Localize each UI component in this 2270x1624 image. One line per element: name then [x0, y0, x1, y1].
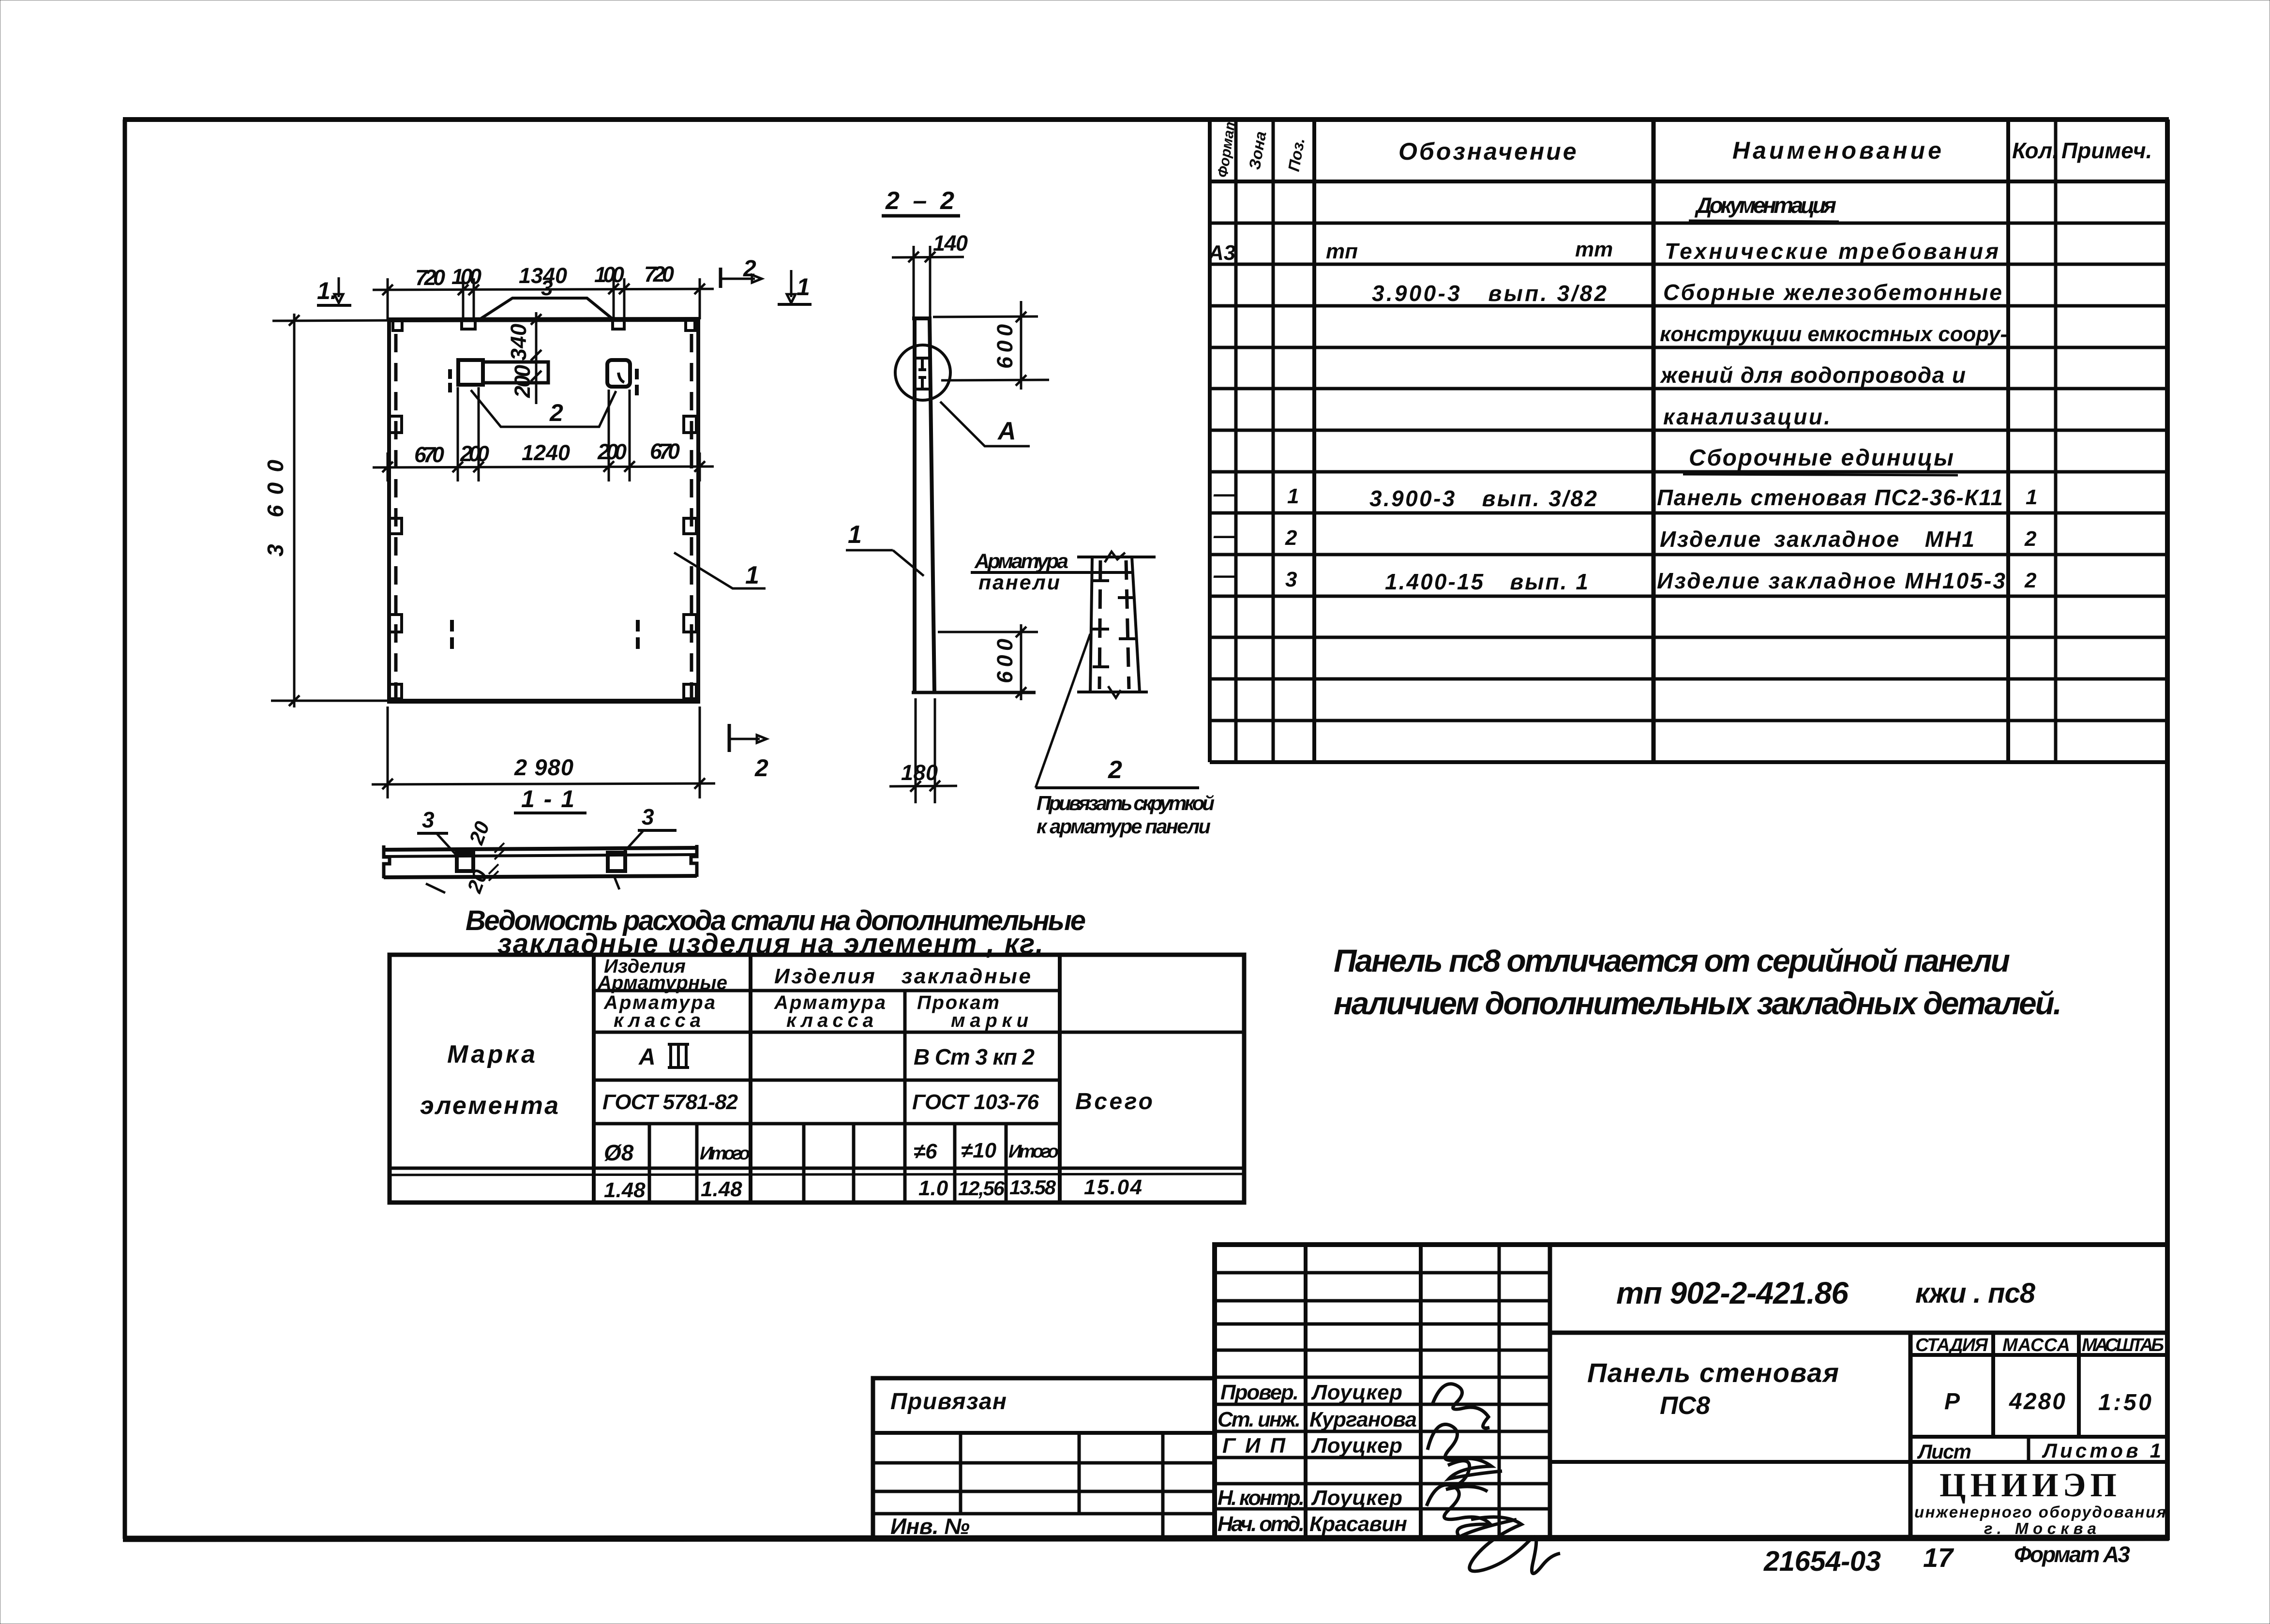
left edge key 1: [389, 416, 402, 433]
embed MH1 bar: [483, 362, 548, 383]
spec table row line 3: [1210, 304, 2167, 308]
stadia col масса: [1991, 1333, 1995, 1437]
svg-text:МАСШТАБ: МАСШТАБ: [2082, 1335, 2164, 1355]
600 upper ext bottom: [941, 380, 1049, 380]
left cols line b: [1419, 1245, 1423, 1538]
svg-text:Наименование: Наименование: [1732, 137, 1944, 164]
spec table row line 7: [1210, 470, 2167, 474]
strip top edge: [384, 848, 697, 850]
leader 3 left: [436, 833, 457, 856]
dash-dot mark right of embed: [635, 369, 639, 395]
embed MH105 hook mark: [618, 373, 624, 382]
SHEET-FRAME: [123, 120, 2169, 1539]
spec table column line Поз/Обозначение: [1312, 120, 1316, 762]
left edge key 4: [389, 684, 402, 699]
svg-text:кжи . пс8: кжи . пс8: [1915, 1278, 2036, 1309]
svg-text:Марка: Марка: [447, 1040, 535, 1068]
svg-text:конструкции емкостных соору-: конструкции емкостных соору-: [1660, 322, 2007, 346]
privyazan row 3 bottom: [873, 1490, 1215, 1493]
mid dim ext left: [387, 452, 389, 481]
panel right inner dashed edge: [690, 334, 693, 698]
spec table row line 4: [1210, 346, 2167, 349]
vedomost col Марка/арматурные: [592, 955, 596, 1203]
spec table column line Формат-left: [1208, 120, 1212, 762]
svg-text:Зона: Зона: [1245, 130, 1269, 171]
spec table column line Зона/Поз: [1272, 120, 1275, 762]
dash-dot mark left of embed: [448, 369, 452, 392]
embed MH105 plate: [607, 360, 630, 387]
svg-text:2: 2: [2024, 569, 2037, 592]
svg-text:Формат А3: Формат А3: [2014, 1542, 2130, 1567]
svg-text:2: 2: [549, 399, 563, 426]
svg-text:жений для водопровода и: жений для водопровода и: [1659, 362, 1966, 388]
svg-text:2: 2: [1285, 526, 1297, 550]
PANEL-FRONT-VIEW: [387, 276, 766, 701]
svg-text:Панель стеновая ПС2-36-К11: Панель стеновая ПС2-36-К11: [1657, 485, 2003, 510]
svg-text:3.900-3 вып. 3/82: 3.900-3 вып. 3/82: [1369, 486, 1597, 511]
svg-text:марки: марки: [951, 1010, 1028, 1031]
mid dim ext 2110: [608, 390, 610, 481]
600 upper ticks: [1016, 312, 1026, 386]
mid dim ext 870: [478, 387, 480, 481]
break zigzag bottom: [1108, 686, 1121, 698]
spec table row line 12: [1210, 677, 2167, 681]
detail circle A: [895, 345, 950, 400]
mid dim ext right: [699, 452, 701, 481]
svg-text:1.400-15 вып. 1: 1.400-15 вып. 1: [1385, 569, 1588, 594]
svg-text:2: 2: [754, 754, 768, 782]
panel top edge: [387, 319, 700, 320]
strip left cap: [384, 845, 390, 878]
3600 dim vline: [293, 314, 296, 707]
signature 4: [1427, 1485, 1517, 1537]
svg-text:МАССА: МАССА: [2002, 1335, 2070, 1355]
svg-text:Кол.: Кол.: [2012, 138, 2059, 163]
signature 5 tail: [1470, 1517, 1560, 1574]
svg-text:21654-03: 21654-03: [1763, 1546, 1881, 1577]
svg-text:Лоуцкер: Лоуцкер: [1311, 1434, 1402, 1458]
privyazan outer box: [873, 1378, 1215, 1538]
svg-text:—: —: [1213, 523, 1236, 548]
left corner notch: [393, 320, 402, 331]
detail bottom line: [1077, 691, 1148, 693]
3600 dim top ext: [272, 320, 400, 321]
svg-text:А: А: [997, 417, 1016, 445]
SPEC-TABLE-GRID: [1210, 120, 2167, 762]
svg-text:—: —: [1213, 481, 1236, 506]
svg-text:Изделия закладные: Изделия закладные: [774, 964, 1031, 988]
svg-text:Красавин: Красавин: [1309, 1512, 1407, 1536]
svg-text:ГОСТ 103-76: ГОСТ 103-76: [912, 1090, 1039, 1114]
svg-text:1: 1: [797, 273, 810, 301]
svg-text:3 600: 3 600: [263, 460, 288, 556]
left big divider: [1548, 1245, 1552, 1538]
svg-text:2: 2: [743, 256, 756, 282]
svg-text:200: 200: [460, 441, 489, 466]
svg-text:720: 720: [644, 262, 674, 286]
140 dim line: [892, 257, 964, 257]
detail right edge: [1132, 557, 1140, 692]
svg-text:Инв. №: Инв. №: [890, 1514, 970, 1539]
strip left edge: [913, 318, 917, 692]
600 upper ext top: [933, 316, 1038, 317]
spec table row line 10: [1210, 595, 2167, 598]
spec table column line Обозначение/Наименование: [1652, 120, 1656, 762]
vedomost col закладные/прокат: [903, 991, 907, 1203]
privyazan row 1 bottom: [873, 1431, 1215, 1435]
privyazan col a: [959, 1433, 962, 1514]
name cell bottom: [1550, 1460, 2167, 1464]
leader line lower-right of strip: [615, 877, 619, 889]
top dim ext 2160: [613, 278, 615, 319]
svg-text:ГОСТ 5781-82: ГОСТ 5781-82: [602, 1090, 738, 1114]
left edge key 2: [389, 518, 402, 534]
svg-text:Ø8: Ø8: [604, 1140, 634, 1165]
svg-text:Сборочные единицы: Сборочные единицы: [1689, 445, 1955, 471]
svg-text:Панель стеновая: Панель стеновая: [1587, 1357, 1839, 1388]
svg-text:4280: 4280: [2009, 1389, 2065, 1414]
svg-text:Лоуцкер: Лоуцкер: [1311, 1381, 1402, 1404]
svg-text:1.48: 1.48: [604, 1178, 646, 1202]
svg-text:ПС8: ПС8: [1660, 1392, 1710, 1420]
svg-text:≠10: ≠10: [961, 1139, 997, 1162]
svg-text:3: 3: [642, 804, 654, 829]
spec table row line 6: [1210, 429, 2167, 432]
svg-text:Панель пс8 отличается от се: Панель пс8 отличается от серийной панели: [1334, 943, 2010, 978]
svg-text:1: 1: [745, 561, 759, 589]
rebar dashed right: [1126, 560, 1129, 689]
top dim ext 2260: [623, 278, 626, 319]
svg-text:Лист: Лист: [1917, 1440, 1971, 1463]
channel symbol lower in circle: [916, 377, 929, 389]
svg-text:Листов 1: Листов 1: [2042, 1439, 2161, 1462]
left cols line a: [1304, 1245, 1308, 1538]
svg-text:2: 2: [2024, 527, 2037, 551]
right edge key 2: [684, 518, 696, 534]
svg-text:тт: тт: [1575, 238, 1613, 261]
dash-dot mark lower left: [450, 620, 454, 649]
svg-text:Сборные железобетонные: Сборные железобетонные: [1663, 280, 2002, 305]
TITLE-BLOCK: [1215, 1245, 2167, 1574]
top dim ticks: [382, 284, 705, 295]
spec table column line Кол/Примеч: [2054, 120, 2058, 762]
DIMENSIONS-FRONT: [263, 256, 812, 813]
left cols line c: [1498, 1245, 1501, 1538]
leader line under Арматура: [971, 571, 1132, 574]
svg-text:Р: Р: [1944, 1389, 1960, 1414]
SPEC-TABLE-TEXT: [1208, 116, 2152, 594]
stadia header bottom: [1910, 1353, 2167, 1357]
svg-text:Нач. отд.: Нач. отд.: [1218, 1512, 1305, 1536]
600 lower ticks: [1016, 627, 1026, 698]
svg-text:100: 100: [594, 262, 624, 287]
left edge key 3: [389, 615, 402, 632]
embed left in section: [457, 853, 473, 871]
mid dim ext 670: [457, 387, 459, 481]
privyazan row 4 bottom: [873, 1512, 1215, 1516]
svg-text:2: 2: [1108, 756, 1122, 784]
SECTION-1-1: [384, 804, 697, 896]
section marker 1 top-left arrow: [338, 277, 340, 297]
2980 dim line: [372, 783, 715, 784]
dash-dot mark lower right: [636, 620, 640, 649]
left rows: [1215, 1271, 1550, 1275]
detail left edge: [1090, 557, 1092, 692]
section marker 1 top-right: [790, 270, 793, 297]
PRIVYAZAN-TABLE: [873, 1378, 1215, 1539]
vedomost col арматурные/закладные: [749, 955, 752, 1203]
340-200 dim ticks: [531, 314, 541, 381]
svg-text:670: 670: [414, 442, 444, 467]
title block outer box: [1215, 1245, 2167, 1538]
detail top line: [1077, 556, 1156, 558]
svg-text:г. Москва: г. Москва: [1984, 1519, 2100, 1537]
leader 2 of embeds: [471, 390, 616, 427]
vedomost row АIII bottom: [594, 1079, 1060, 1082]
spec table row line 11: [1210, 636, 2167, 639]
340-200 dim vline: [535, 312, 538, 404]
svg-text:15.04: 15.04: [1084, 1175, 1142, 1199]
svg-text:Курганова: Курганова: [1309, 1408, 1417, 1431]
2980 dim ext left: [387, 707, 389, 798]
svg-text:А3: А3: [1208, 241, 1235, 265]
svg-text:17: 17: [1923, 1542, 1954, 1573]
svg-text:Лоуцкер: Лоуцкер: [1311, 1486, 1402, 1510]
svg-text:13.58: 13.58: [1009, 1176, 1056, 1199]
vedomost row изделия header bottom: [594, 989, 1060, 992]
svg-text:200: 200: [510, 365, 535, 398]
right corner notch: [686, 320, 695, 331]
svg-text:канализации.: канализации.: [1663, 404, 1830, 429]
top dim ext right: [699, 278, 701, 319]
leader 3 right: [623, 830, 644, 853]
svg-text:3: 3: [1285, 568, 1297, 591]
right loop slot: [613, 320, 624, 329]
svg-text:инженерного оборудования: инженерного оборудования: [1914, 1503, 2166, 1521]
spec table header bottom line: [1210, 180, 2167, 183]
SECTION-2-2: [846, 187, 1049, 803]
svg-text:1: 1: [848, 521, 862, 549]
spec table row line 1: [1210, 222, 2167, 225]
leader 1 of panel: [674, 553, 766, 588]
svg-text:340: 340: [506, 324, 531, 361]
vedomost values row top (double): [390, 1167, 1244, 1170]
svg-text:элемента: элемента: [420, 1092, 558, 1120]
vedomost row ГОСТ bottom: [594, 1122, 1060, 1126]
top dim ext 820: [473, 278, 475, 319]
svg-text:Привязать скруткой: Привязать скруткой: [1037, 792, 1215, 814]
svg-text:1240: 1240: [522, 440, 570, 465]
section marker 2 top-right: [719, 268, 722, 288]
svg-text:Арматура: Арматура: [974, 550, 1068, 573]
svg-text:1: 1: [2026, 485, 2037, 509]
svg-text:Изделие закладное МН1: Изделие закладное МН1: [1660, 526, 1974, 552]
strip bottom edge: [384, 876, 697, 877]
spec table column line Наименование/Кол: [2006, 120, 2010, 762]
strip right edge (tapered): [930, 318, 934, 692]
svg-text:Г И П: Г И П: [1222, 1434, 1286, 1458]
2980 dim ext right: [699, 707, 701, 798]
svg-text:1.48: 1.48: [701, 1177, 742, 1201]
panel right outer edge: [696, 319, 700, 701]
stadia table left edge: [1909, 1333, 1913, 1538]
left loop slot: [462, 320, 475, 329]
svg-text:600: 600: [992, 639, 1017, 683]
180 dim ext lines: [915, 698, 917, 803]
svg-text:Всего: Всего: [1075, 1089, 1153, 1114]
180 dim ticks: [910, 781, 940, 792]
panel left inner dashed edge: [394, 334, 398, 698]
svg-text:панели: панели: [978, 571, 1060, 594]
svg-text:Документация: Документация: [1694, 193, 1836, 218]
svg-text:к арматуре панели: к арматуре панели: [1037, 815, 1211, 838]
600 upper dim vline: [1020, 301, 1022, 390]
channel symbol upper in circle: [916, 358, 929, 370]
svg-text:670: 670: [650, 439, 680, 464]
leader 2 of detail: [1036, 634, 1090, 788]
лист/листов divider: [2027, 1437, 2030, 1462]
svg-text:наличием дополнительных закл: наличием дополнительных закладных детале…: [1334, 985, 2062, 1021]
svg-text:Ст. инж.: Ст. инж.: [1218, 1408, 1301, 1431]
svg-text:Изделие закладное МН105-3: Изделие закладное МН105-3: [1657, 568, 2005, 593]
right edge key 3: [684, 615, 696, 632]
svg-text:180: 180: [901, 760, 938, 785]
section marker 2 bottom: [728, 724, 731, 752]
600 lower ext top: [938, 631, 1038, 633]
svg-text:2 980: 2 980: [514, 754, 573, 780]
svg-text:Примеч.: Примеч.: [2061, 138, 2152, 163]
svg-text:—: —: [1213, 562, 1236, 587]
svg-text:100: 100: [451, 264, 481, 289]
spec table row line 9: [1210, 553, 2167, 556]
panel left outer edge: [387, 320, 391, 701]
svg-text:Привязан: Привязан: [890, 1389, 1007, 1414]
svg-text:Поз.: Поз.: [1284, 136, 1308, 173]
svg-text:1340: 1340: [519, 263, 567, 288]
mid dim ticks: [382, 461, 705, 472]
top dim ext 720: [462, 278, 465, 319]
signature 3: [1446, 1461, 1488, 1491]
svg-text:А: А: [638, 1044, 656, 1070]
mid dim ext 2310: [629, 390, 631, 481]
600 lower dim vline: [1020, 624, 1022, 700]
spec table row line 8: [1210, 511, 2167, 515]
spec table bottom line: [1210, 760, 2167, 764]
svg-text:12,56: 12,56: [958, 1177, 1005, 1200]
svg-text:тп 902-2-421.86: тп 902-2-421.86: [1616, 1276, 1849, 1310]
designation cell bottom: [1550, 1331, 2167, 1335]
svg-text:Технические требования: Технические требования: [1665, 239, 1999, 264]
svg-text:В Ст 3 кп 2: В Ст 3 кп 2: [914, 1044, 1035, 1069]
spec table row line 13: [1210, 719, 2167, 722]
vedomost outer box: [390, 955, 1244, 1203]
140 dim ext lines: [913, 246, 915, 319]
rebar dashed left: [1099, 560, 1100, 689]
strip inner line: [384, 855, 697, 857]
2980 dim ticks: [382, 778, 705, 789]
svg-text:ЦНИИЭП: ЦНИИЭП: [1939, 1467, 2120, 1504]
embed MH1 plate: [458, 360, 483, 385]
wire tie marks: [1092, 581, 1136, 667]
3600 dim ticks: [289, 315, 300, 706]
leader A: [940, 402, 1030, 446]
svg-text:Провер.: Провер.: [1220, 1381, 1299, 1404]
vedomost subcol lines: [648, 1124, 651, 1203]
mid dim line: [373, 466, 714, 467]
svg-text:1 - 1: 1 - 1: [521, 785, 574, 812]
svg-text:Н. контр.: Н. контр.: [1218, 1486, 1305, 1510]
svg-text:Итого: Итого: [700, 1143, 750, 1164]
svg-text:720: 720: [415, 265, 445, 290]
leader 1 to strip: [893, 550, 924, 576]
NOTE-TEXT: [1334, 943, 2062, 1021]
spec table row line 5: [1210, 387, 2167, 391]
svg-text:1:50: 1:50: [2098, 1390, 2151, 1415]
spec table row line 2: [1210, 263, 2167, 266]
svg-text:2 – 2: 2 – 2: [885, 187, 954, 215]
svg-text:3: 3: [422, 807, 435, 832]
svg-text:Обозначение: Обозначение: [1398, 138, 1578, 165]
embed right in section: [608, 853, 625, 871]
svg-text:3.900-3 вып. 3/82: 3.900-3 вып. 3/82: [1372, 281, 1607, 306]
svg-text:20: 20: [465, 818, 494, 848]
leader line lower-left of strip: [426, 884, 445, 893]
panel bottom edge: [387, 699, 700, 704]
20 dim ticks: [489, 843, 504, 881]
right edge key 4: [684, 684, 696, 699]
svg-text:1.0: 1.0: [918, 1176, 948, 1200]
svg-text:600: 600: [992, 324, 1017, 369]
180 dim line: [889, 786, 957, 786]
svg-text:≠6: ≠6: [914, 1140, 937, 1163]
stadia values bottom: [1910, 1435, 2167, 1439]
stadia col масштаб: [2077, 1333, 2081, 1437]
strip right cap: [691, 845, 697, 877]
ARMATURE-DETAIL: [971, 550, 1215, 838]
VEDOMOST-TABLE: [390, 905, 1244, 1203]
vedomost col прокат/всего: [1058, 955, 1062, 1203]
strip top cap: [912, 316, 932, 320]
svg-text:1.: 1.: [317, 277, 337, 304]
svg-text:Арматурные: Арматурные: [597, 972, 727, 993]
svg-text:140: 140: [933, 231, 968, 256]
signature 2: [1428, 1424, 1502, 1479]
privyazan col c: [1161, 1433, 1165, 1538]
privyazan col b: [1078, 1433, 1081, 1514]
break zigzag top: [1105, 552, 1125, 562]
svg-text:тп: тп: [1326, 240, 1358, 263]
svg-text:Итого: Итого: [1008, 1142, 1059, 1162]
140 dim ticks: [908, 252, 935, 262]
signature 1: [1432, 1384, 1489, 1428]
privyazan row 2 bottom: [873, 1461, 1215, 1465]
lifting trapezoid marker: [480, 298, 613, 319]
top dim ext left: [387, 278, 389, 319]
BOTTOM-TEXT: [1763, 1542, 2130, 1577]
spec table column line Формат/Зона: [1234, 120, 1238, 762]
strip bottom cap: [912, 691, 1036, 694]
svg-text:СТАДИЯ: СТАДИЯ: [1915, 1335, 1988, 1355]
svg-text:200: 200: [597, 439, 627, 464]
top dim line: [373, 289, 714, 290]
vedomost row арматура класса bottom: [594, 1031, 1244, 1034]
underline of label 2: [1036, 786, 1199, 789]
right edge key 1: [684, 416, 696, 433]
3600 dim bottom ext: [271, 700, 400, 702]
svg-text:1: 1: [1287, 484, 1299, 508]
